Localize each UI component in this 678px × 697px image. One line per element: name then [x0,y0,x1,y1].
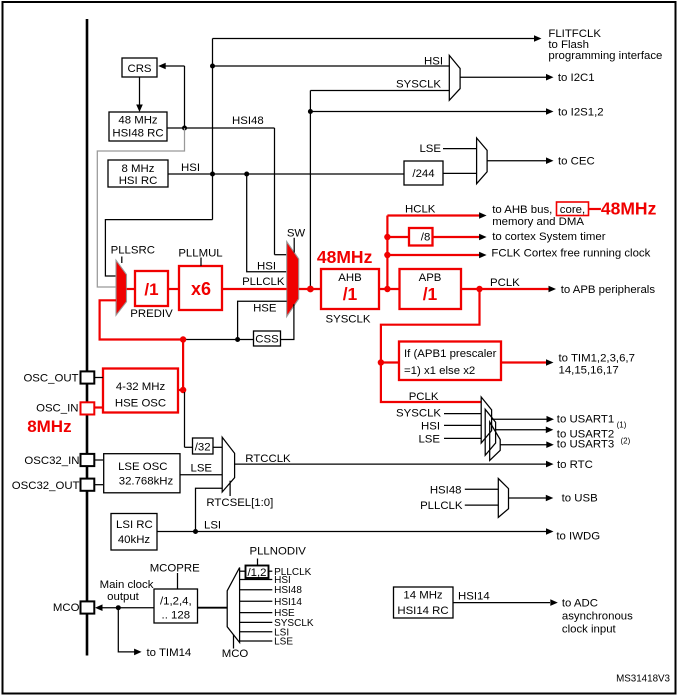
svg-text:LSE: LSE [418,433,440,445]
svg-text:/32: /32 [195,441,211,453]
svg-text:CRS: CRS [127,63,151,75]
svg-text:HSI48: HSI48 [430,484,462,496]
svg-text:FCLK Cortex free running clock: FCLK Cortex free running clock [491,247,650,259]
svg-text:to I2S1,2: to I2S1,2 [558,107,604,119]
svg-text:to USART1: to USART1 [557,414,614,426]
svg-text:output: output [107,591,140,603]
svg-text:PLLNODIV: PLLNODIV [250,546,307,558]
svg-text:48MHz: 48MHz [601,199,657,219]
svg-text:OSC32_OUT: OSC32_OUT [12,480,80,492]
svg-text:HSI14 RC: HSI14 RC [397,605,448,617]
svg-text:/1,2,4,: /1,2,4, [160,595,192,607]
svg-text:8 MHz: 8 MHz [122,163,155,175]
svg-text:LSI RC: LSI RC [116,519,153,531]
svg-text:HSE: HSE [253,302,277,314]
svg-text:If (APB1 prescaler: If (APB1 prescaler [404,348,497,360]
svg-text:clock input: clock input [562,623,617,635]
svg-text:32.768kHz: 32.768kHz [119,476,174,488]
svg-text:MCOPRE: MCOPRE [150,563,200,575]
svg-text:48MHz: 48MHz [317,247,373,267]
svg-text:to TIM1,2,3,6,7: to TIM1,2,3,6,7 [559,352,635,364]
svg-text:to cortex System timer: to cortex System timer [492,231,606,243]
svg-text:8MHz: 8MHz [27,417,71,436]
svg-text:PREDIV: PREDIV [130,308,173,320]
svg-text:LSI: LSI [204,519,221,531]
svg-text:HSI14: HSI14 [458,591,490,603]
svg-text:OSC32_IN: OSC32_IN [24,455,79,467]
svg-text:/244: /244 [412,168,434,180]
svg-text:SYSCLK: SYSCLK [396,408,441,420]
svg-text:HSI: HSI [421,421,440,433]
svg-text:.. 128: .. 128 [162,609,191,621]
svg-text:/8: /8 [421,232,431,244]
svg-text:PCLK: PCLK [409,391,439,403]
svg-text:HSI RC: HSI RC [119,175,158,187]
svg-text:to AHB bus,: to AHB bus, [492,204,552,216]
svg-text:HSI: HSI [257,261,276,273]
svg-text:LSE: LSE [191,463,213,475]
svg-text:(2): (2) [621,436,631,445]
svg-text:/1,2: /1,2 [248,567,267,579]
svg-text:40kHz: 40kHz [118,534,151,546]
svg-text:to APB peripherals: to APB peripherals [561,284,656,296]
svg-text:LSE OSC: LSE OSC [118,461,167,473]
svg-text:to RTC: to RTC [557,459,593,471]
svg-text:HCLK: HCLK [405,204,436,216]
svg-text:SYSCLK: SYSCLK [396,79,441,91]
svg-text:MS31418V3: MS31418V3 [616,674,670,685]
svg-text:OSC_IN: OSC_IN [36,403,78,415]
svg-text:=1) x1 else x2: =1) x1 else x2 [404,365,475,377]
svg-text:PLLMUL: PLLMUL [178,248,222,260]
svg-text:to I2C1: to I2C1 [558,72,595,84]
svg-text:LSE: LSE [274,637,293,648]
svg-text:CSS: CSS [255,334,279,346]
svg-text:PLLCLK: PLLCLK [420,500,463,512]
svg-text:programming interface: programming interface [548,50,662,62]
svg-text:core,: core, [560,204,585,216]
svg-text:HSE OSC: HSE OSC [115,397,166,409]
svg-text:x6: x6 [191,279,211,299]
svg-text:/1: /1 [144,280,158,299]
svg-text:to USB: to USB [562,493,598,505]
svg-text:48 MHz: 48 MHz [118,114,158,126]
svg-text:HSI14: HSI14 [274,597,302,608]
svg-text:/1: /1 [343,284,358,304]
svg-text:memory and DMA: memory and DMA [492,216,584,228]
svg-text:Main clock: Main clock [100,579,154,591]
svg-text:HSI: HSI [424,56,443,68]
svg-text:AHB: AHB [338,272,361,284]
svg-text:MCO: MCO [53,602,80,614]
svg-text:APB: APB [419,272,442,284]
svg-text:MCO: MCO [222,648,249,660]
svg-text:OSC_OUT: OSC_OUT [23,373,78,385]
svg-text:to TIM14: to TIM14 [147,647,192,659]
svg-text:(1): (1) [617,421,627,430]
svg-text:RTCSEL[1:0]: RTCSEL[1:0] [206,497,273,509]
svg-text:LSE: LSE [419,143,441,155]
svg-text:HSI48 RC: HSI48 RC [112,127,163,139]
svg-text:HSI: HSI [181,162,200,174]
svg-text:to CEC: to CEC [558,156,595,168]
svg-text:RTCCLK: RTCCLK [245,453,291,465]
svg-text:14,15,16,17: 14,15,16,17 [559,364,619,376]
svg-text:HSI48: HSI48 [232,115,264,127]
svg-text:4-32 MHz: 4-32 MHz [116,381,166,393]
svg-text:SW: SW [287,228,306,240]
svg-text:to ADC: to ADC [562,597,598,609]
svg-text:PCLK: PCLK [490,277,520,289]
svg-text:to IWDG: to IWDG [556,531,600,543]
svg-text:to USART3: to USART3 [557,439,614,451]
svg-text:asynchronous: asynchronous [562,610,633,622]
svg-text:PLLSRC: PLLSRC [111,244,155,256]
svg-text:HSI48: HSI48 [274,585,302,596]
svg-text:SYSCLK: SYSCLK [326,314,371,326]
svg-text:14 MHz: 14 MHz [403,590,443,602]
svg-text:PLLCLK: PLLCLK [242,276,285,288]
svg-text:/1: /1 [423,284,438,304]
